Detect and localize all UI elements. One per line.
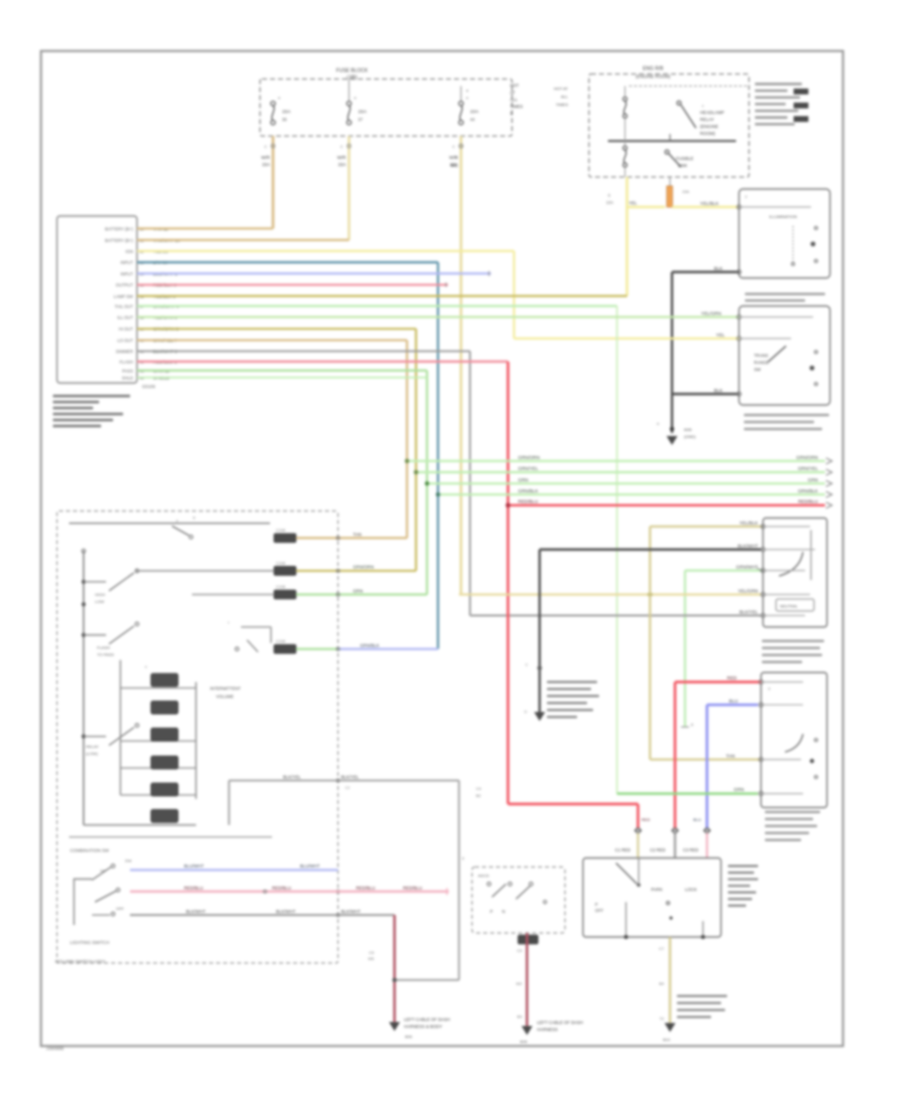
svg-text:LAMP SW: LAMP SW: [114, 294, 133, 299]
svg-text:B10: B10: [663, 1037, 671, 1042]
svg-text:6: 6: [193, 516, 195, 520]
svg-text:C108: C108: [276, 561, 285, 565]
svg-text:C108: C108: [276, 529, 285, 533]
svg-text:2nd: 2nd: [125, 859, 131, 863]
svg-text:RELAY: RELAY: [700, 117, 714, 122]
svg-text:RED/BLU: RED/BLU: [184, 885, 203, 890]
svg-text:D: D: [524, 710, 527, 714]
svg-text:GRN/BLK: GRN/BLK: [798, 489, 819, 494]
svg-text:LO OUT: LO OUT: [117, 338, 133, 343]
svg-text:N: N: [502, 909, 505, 914]
svg-text:B3: B3: [517, 1014, 523, 1019]
svg-text:LEFT CABLE OF DASH: LEFT CABLE OF DASH: [537, 1020, 583, 1025]
svg-text:GRN: GRN: [518, 478, 528, 483]
svg-text:INPUT: INPUT: [120, 271, 133, 276]
svg-text:RELAY: RELAY: [86, 744, 99, 749]
svg-text:ASCD: ASCD: [478, 873, 489, 878]
svg-text:P: P: [595, 902, 598, 907]
svg-text:GRN/ORN: GRN/ORN: [796, 455, 818, 460]
svg-text:BLK/YEL: BLK/YEL: [739, 610, 758, 615]
svg-text:BLU: BLU: [729, 699, 738, 704]
svg-text:RED/BLU: RED/BLU: [403, 885, 422, 890]
svg-text:LEFT CABLE OF DASH: LEFT CABLE OF DASH: [404, 1017, 450, 1022]
svg-text:(ENGINE ROOM): (ENGINE ROOM): [636, 74, 671, 79]
svg-text:C9: C9: [517, 948, 523, 953]
svg-text:C1 RED: C1 RED: [615, 848, 630, 853]
svg-text:TAIL OUT: TAIL OUT: [115, 304, 134, 309]
svg-text:LIGHTING SWITCH: LIGHTING SWITCH: [70, 940, 109, 945]
svg-text:BATTERY (B+): BATTERY (B+): [105, 238, 134, 243]
svg-text:RED/BLU: RED/BLU: [356, 885, 375, 890]
svg-text:TIMES: TIMES: [510, 104, 523, 109]
svg-text:PASS: PASS: [122, 368, 133, 373]
svg-text:OFF: OFF: [595, 908, 604, 913]
svg-text:G0106: G0106: [142, 384, 156, 389]
svg-text:TRANS: TRANS: [754, 353, 768, 358]
svg-text:BLK/YEL: BLK/YEL: [283, 775, 301, 780]
svg-text:FLASH: FLASH: [97, 645, 110, 650]
svg-text:TAN: TAN: [353, 532, 361, 537]
svg-text:2: 2: [745, 195, 747, 199]
svg-text:f: f: [228, 621, 229, 625]
svg-text:TIMES: TIMES: [556, 102, 569, 107]
svg-text:YEL/GRN: YEL/GRN: [738, 589, 758, 594]
svg-text:SW: SW: [754, 367, 761, 372]
svg-text:GRN/YEL: GRN/YEL: [798, 466, 819, 471]
svg-text:GRN/BLK: GRN/BLK: [360, 643, 379, 648]
svg-text:LOCK: LOCK: [685, 887, 697, 892]
svg-text:J39088B: J39088B: [46, 1046, 64, 1051]
svg-text:T2: T2: [659, 1016, 664, 1021]
svg-text:C: C: [452, 145, 455, 149]
svg-text:OFF: OFF: [116, 906, 125, 911]
svg-text:(GND): (GND): [684, 434, 696, 439]
svg-text:ENG R/B: ENG R/B: [643, 66, 664, 72]
svg-text:W2: W2: [516, 981, 523, 986]
svg-text:TO PASS: TO PASS: [97, 652, 114, 657]
svg-text:HOT AT: HOT AT: [554, 86, 569, 91]
svg-text:COLUMN SWITCH ASSY: COLUMN SWITCH ASSY: [55, 959, 105, 964]
svg-text:GRN: GRN: [353, 589, 363, 594]
svg-text:W/R: W/R: [337, 155, 347, 160]
svg-text:TAN: TAN: [726, 753, 735, 758]
svg-text:RANGE: RANGE: [754, 360, 769, 365]
svg-text:YEL: YEL: [629, 201, 638, 206]
svg-text:BLK/WHT: BLK/WHT: [738, 544, 759, 549]
svg-text:C2 RED: C2 RED: [650, 848, 665, 853]
svg-text:BLK: BLK: [714, 266, 724, 271]
svg-text:GRN/WHT: GRN/WHT: [736, 565, 758, 570]
svg-text:FUSIBLE: FUSIBLE: [676, 156, 694, 161]
svg-text:GRN: GRN: [734, 787, 744, 792]
svg-text:HOT: HOT: [510, 83, 519, 88]
svg-text:BLK/YEL: BLK/YEL: [341, 775, 359, 780]
svg-text:44: 44: [470, 117, 475, 122]
svg-text:VOLUME: VOLUME: [216, 694, 234, 699]
svg-text:15A: 15A: [262, 162, 271, 167]
svg-text:BATTERY (B+): BATTERY (B+): [105, 226, 134, 231]
svg-text:RED/BLU: RED/BLU: [518, 499, 538, 504]
svg-text:BLU/WHT: BLU/WHT: [184, 864, 204, 869]
svg-text:C: C: [525, 663, 528, 667]
svg-text:NEUTRAL: NEUTRAL: [780, 605, 798, 609]
svg-text:GRN/ORN: GRN/ORN: [353, 565, 374, 570]
svg-text:C5: C5: [369, 950, 375, 955]
svg-text:GRN/ORN: GRN/ORN: [518, 455, 540, 460]
svg-text:LINK: LINK: [678, 163, 688, 168]
svg-text:INPUT: INPUT: [120, 260, 133, 265]
svg-text:15A: 15A: [338, 162, 347, 167]
svg-text:10A: 10A: [606, 200, 614, 205]
svg-text:RED: RED: [642, 817, 651, 822]
svg-text:S: S: [510, 111, 513, 116]
svg-text:36: 36: [282, 117, 287, 122]
svg-text:AT: AT: [510, 90, 515, 95]
svg-text:ILLUMINATION: ILLUMINATION: [769, 214, 797, 219]
svg-text:C: C: [264, 145, 267, 149]
svg-text:RED/BLU: RED/BLU: [798, 499, 818, 504]
svg-text:BLU: BLU: [693, 817, 701, 822]
svg-text:ILL OUT: ILL OUT: [117, 315, 133, 320]
svg-text:C: C: [340, 145, 343, 149]
svg-text:e: e: [145, 665, 147, 669]
svg-text:3: 3: [768, 687, 770, 691]
svg-text:15A: 15A: [682, 189, 689, 194]
svg-text:g: g: [462, 856, 464, 860]
svg-text:BLK/WHT: BLK/WHT: [186, 909, 206, 914]
svg-text:PARK: PARK: [651, 887, 663, 892]
svg-text:C4: C4: [476, 786, 482, 791]
svg-text:SHLD: SHLD: [122, 375, 133, 380]
svg-text:15A: 15A: [282, 109, 291, 115]
svg-text:(J/B): (J/B): [347, 75, 358, 81]
svg-text:B2: B2: [476, 793, 482, 798]
svg-text:b: b: [657, 422, 659, 426]
svg-text:C108: C108: [276, 640, 285, 644]
svg-text:B08: B08: [520, 1039, 528, 1044]
svg-text:W/L: W/L: [450, 163, 458, 168]
svg-text:M30: M30: [684, 427, 693, 432]
svg-text:BLK/WHT: BLK/WHT: [276, 909, 296, 914]
svg-text:B06: B06: [405, 1034, 413, 1039]
svg-text:P: P: [490, 909, 493, 914]
svg-text:YEL: YEL: [716, 333, 725, 338]
svg-text:OUTPUT: OUTPUT: [116, 283, 134, 288]
svg-text:IGN: IGN: [126, 249, 133, 254]
svg-text:HARNESS: HARNESS: [537, 1027, 558, 1032]
svg-text:C2: C2: [345, 786, 350, 790]
svg-text:8: 8: [691, 723, 693, 727]
svg-text:37: 37: [358, 117, 363, 122]
svg-text:15A: 15A: [358, 109, 367, 115]
svg-text:g: g: [608, 193, 610, 197]
svg-text:YEL/GRN: YEL/GRN: [701, 311, 721, 316]
svg-text:ROOM): ROOM): [700, 131, 716, 136]
svg-text:GRN/BLK: GRN/BLK: [518, 489, 539, 494]
svg-text:C3 RED: C3 RED: [683, 848, 698, 853]
svg-text:FUSE BLOCK: FUSE BLOCK: [336, 68, 368, 74]
svg-text:B4: B4: [659, 981, 665, 986]
svg-text:BLU/WHT: BLU/WHT: [300, 864, 320, 869]
svg-text:W6: W6: [368, 956, 375, 961]
svg-text:W/R: W/R: [261, 155, 271, 160]
svg-text:HIGH: HIGH: [95, 592, 105, 597]
svg-text:C7: C7: [659, 946, 665, 951]
svg-text:HEADLAMP: HEADLAMP: [700, 110, 724, 115]
svg-text:BLK: BLK: [714, 388, 724, 393]
svg-text:ALL: ALL: [510, 97, 518, 102]
svg-text:BLK/WHT: BLK/WHT: [341, 909, 361, 914]
svg-text:YEL/BLK: YEL/BLK: [700, 201, 720, 206]
svg-text:d: d: [176, 519, 178, 523]
svg-text:GRN: GRN: [808, 478, 818, 483]
svg-text:(LOW): (LOW): [86, 751, 98, 756]
svg-text:RED: RED: [727, 676, 737, 681]
svg-text:ALL: ALL: [561, 94, 569, 99]
svg-text:C108: C108: [276, 585, 285, 589]
svg-text:HARNESS & BODY: HARNESS & BODY: [404, 1024, 442, 1029]
svg-text:GRN/YEL: GRN/YEL: [518, 466, 539, 471]
svg-text:LOW: LOW: [95, 599, 104, 604]
svg-text:HI OUT: HI OUT: [119, 327, 134, 332]
svg-text:RED/BLU: RED/BLU: [272, 885, 291, 890]
svg-text:COMBINATION SW: COMBINATION SW: [70, 848, 110, 853]
svg-text:10A: 10A: [470, 109, 479, 115]
svg-text:YEL/BLK: YEL/BLK: [739, 521, 759, 526]
svg-text:INTERMITTENT: INTERMITTENT: [210, 686, 241, 691]
svg-text:C: C: [455, 156, 458, 160]
svg-text:FLASH: FLASH: [120, 359, 134, 364]
svg-text:(ENGINE: (ENGINE: [700, 124, 718, 129]
svg-text:DIMMER: DIMMER: [116, 349, 133, 354]
svg-text:c: c: [702, 104, 704, 108]
